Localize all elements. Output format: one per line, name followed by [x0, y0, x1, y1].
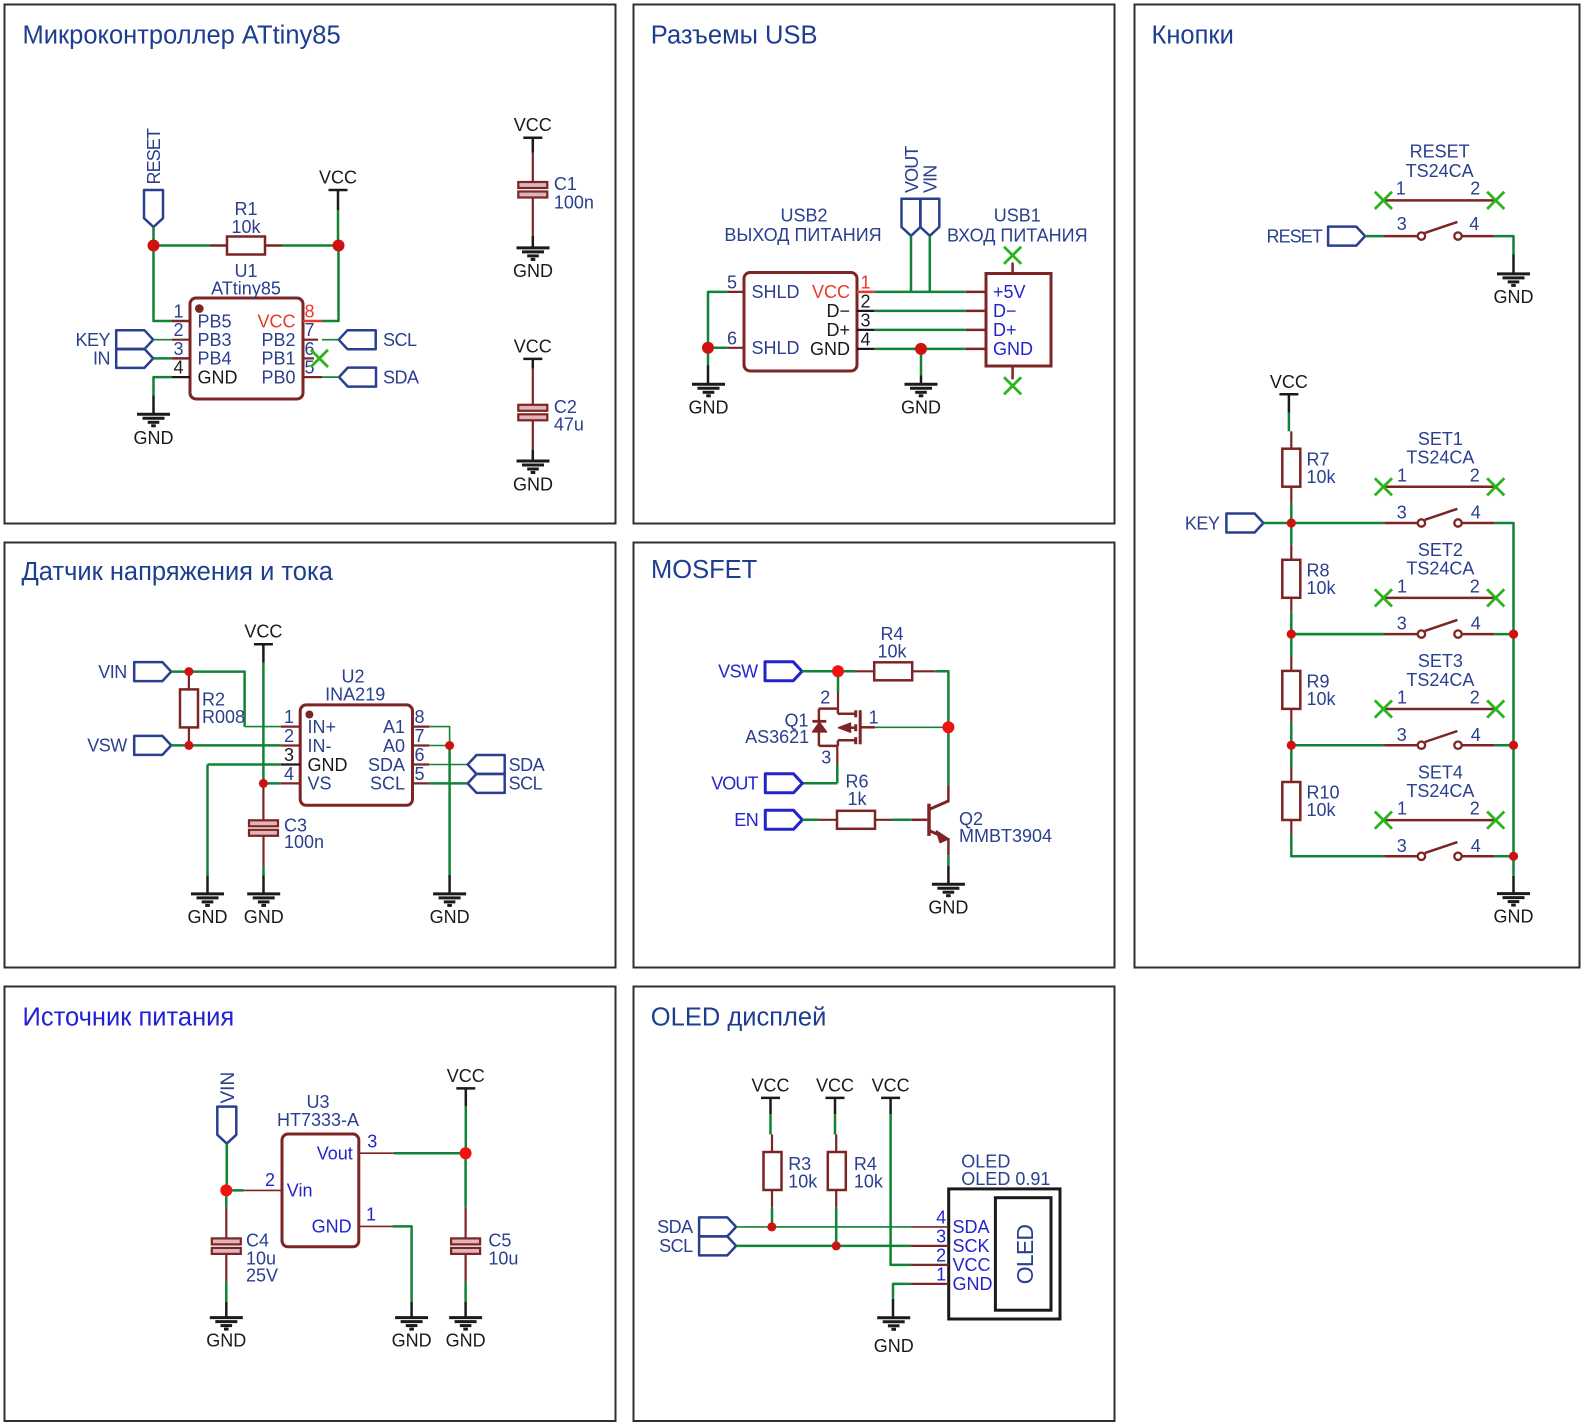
node A0 junction	[445, 741, 454, 750]
USB2 pin 3 D+	[826, 310, 874, 340]
U3 pin 3 Vout	[317, 1132, 394, 1164]
wire VCC to C1	[532, 153, 534, 182]
svg-text:U2: U2	[341, 666, 364, 686]
wire pin5 to SDA	[322, 376, 339, 378]
U1 pin 7 PB2	[261, 320, 318, 350]
svg-text:TS24CA: TS24CA	[1406, 161, 1474, 181]
svg-text:3: 3	[1397, 614, 1407, 634]
switch SET4 contacts	[1384, 855, 1417, 858]
svg-text:10k: 10k	[1307, 800, 1337, 820]
svg-text:PB5: PB5	[198, 311, 232, 331]
wire EN to R6	[802, 819, 818, 822]
svg-text:2: 2	[173, 320, 183, 340]
svg-text:OLED: OLED	[1012, 1225, 1038, 1285]
node VIN junction (power)	[220, 1184, 232, 1196]
svg-text:10k: 10k	[231, 217, 261, 237]
wire right bus	[1495, 523, 1514, 856]
svg-text:GND: GND	[244, 907, 284, 927]
svg-text:3: 3	[936, 1226, 946, 1246]
power VCC (U2)	[244, 622, 282, 663]
svg-text:SCL: SCL	[370, 774, 405, 794]
svg-text:R008: R008	[202, 707, 245, 727]
wire node to R10	[1290, 745, 1293, 767]
power VCC (C2)	[514, 336, 552, 368]
svg-text:3: 3	[1397, 503, 1407, 523]
port flag SDA (oled)	[657, 1217, 736, 1237]
transistor Q2 MMBT3904	[929, 785, 949, 855]
node junction right row4	[1509, 852, 1518, 861]
svg-text:3: 3	[284, 745, 294, 765]
IC U2 INA219 box	[300, 705, 412, 805]
power VCC (oled 3)	[872, 1075, 910, 1114]
wire C5 to ground	[465, 1254, 467, 1318]
wire R1 to node B	[282, 244, 339, 247]
svg-text:D+: D+	[993, 320, 1017, 340]
port flag VSW (mosfet)	[718, 662, 802, 682]
svg-text:GND: GND	[446, 1331, 486, 1351]
capacitor C5	[451, 1238, 480, 1244]
svg-text:U3: U3	[306, 1092, 329, 1112]
wire pin5 to SCL flag	[429, 782, 467, 785]
svg-text:TS24CA: TS24CA	[1406, 670, 1474, 690]
wire VCC sym to node	[465, 1106, 468, 1153]
svg-text:GND: GND	[206, 1331, 246, 1351]
svg-text:VS: VS	[308, 774, 332, 794]
no-connect X RESET pin1	[1375, 192, 1392, 209]
IC U3 HT7333-A box	[282, 1134, 359, 1247]
svg-text:2: 2	[1470, 465, 1480, 485]
wire SDA net	[736, 1226, 911, 1228]
switch SET3 contacts	[1384, 744, 1417, 747]
svg-text:D+: D+	[826, 320, 850, 340]
node gate junction	[942, 721, 954, 733]
wire GND net	[875, 348, 966, 351]
svg-text:GND: GND	[430, 907, 470, 927]
svg-text:3: 3	[1397, 836, 1407, 856]
svg-text:OLED дисплей: OLED дисплей	[651, 1004, 827, 1032]
svg-text:+5V: +5V	[993, 282, 1026, 302]
power VCC (power out)	[447, 1066, 485, 1107]
svg-text:7: 7	[415, 726, 425, 746]
wire SHLD to ground	[707, 348, 710, 384]
svg-text:3: 3	[367, 1132, 377, 1152]
svg-text:5: 5	[727, 272, 737, 292]
svg-text:SCL: SCL	[509, 774, 543, 794]
USB1 top stub	[1011, 263, 1014, 274]
wire node to R9	[1290, 634, 1293, 656]
svg-text:2: 2	[861, 291, 871, 311]
svg-text:1: 1	[1397, 576, 1407, 596]
svg-text:SDA: SDA	[657, 1217, 693, 1237]
resistor R4 (oled)	[828, 1135, 846, 1208]
wire R10 to SET4 pin3	[1291, 834, 1384, 856]
no-connect X SET1 pin2	[1487, 478, 1504, 495]
svg-text:GND: GND	[198, 367, 238, 387]
wire node to Q1 pin2	[837, 671, 840, 708]
U1 pin 8 VCC	[257, 302, 322, 332]
node B junction	[333, 240, 345, 252]
svg-text:Разъемы USB: Разъемы USB	[651, 22, 818, 50]
section box Датчик напряжения и тока	[5, 543, 616, 968]
svg-text:C1: C1	[554, 174, 577, 194]
wire VS node to pin4	[263, 782, 281, 785]
U3 pin 2 Vin	[265, 1170, 313, 1201]
U2 pin 8 A1	[383, 707, 429, 737]
section box Кнопки	[1135, 5, 1580, 968]
connector USB2 box	[744, 273, 857, 372]
svg-text:EN: EN	[734, 810, 758, 830]
USB2 pin 1 VCC	[812, 272, 875, 302]
U2 pin 2 IN-	[281, 726, 332, 756]
svg-text:10k: 10k	[854, 1172, 884, 1192]
resistor R3 (oled)	[764, 1135, 782, 1208]
capacitor C1	[518, 182, 547, 188]
svg-text:5: 5	[305, 358, 315, 378]
wire pin7 to SCL	[322, 339, 339, 341]
ground (U3 GND)	[392, 1318, 432, 1351]
svg-text:SCL: SCL	[383, 330, 417, 350]
svg-text:RESET: RESET	[144, 128, 164, 184]
wire node to C5	[464, 1153, 467, 1238]
wire A0 node to ground	[448, 746, 451, 894]
port flag VIN (power)	[217, 1072, 239, 1144]
svg-text:100n: 100n	[284, 832, 324, 852]
no-connect X bottom (USB1)	[1004, 377, 1021, 394]
wire VSW to IN-	[171, 744, 281, 747]
svg-text:5: 5	[415, 764, 425, 784]
wire pin4 to ground	[154, 377, 173, 414]
section box MOSFET	[634, 543, 1115, 968]
svg-text:SHLD: SHLD	[752, 282, 800, 302]
U1 pin 1 PB5	[172, 302, 232, 332]
wire VCC to R3	[769, 1114, 772, 1134]
svg-text:KEY: KEY	[1185, 513, 1220, 533]
wire node to SET3 pin3 seg	[1291, 744, 1384, 747]
svg-text:1: 1	[284, 707, 294, 727]
wire R3 to SDA net	[771, 1208, 774, 1227]
wire R7 to KEY node	[1290, 503, 1293, 523]
port flag IN	[93, 349, 153, 369]
svg-text:VSW: VSW	[718, 662, 758, 682]
port flag KEY	[75, 330, 153, 350]
wire node A to pin1	[154, 246, 173, 322]
wire bus to ground (keys)	[1512, 856, 1515, 893]
wire R4 to gate node	[935, 671, 948, 727]
svg-text:SET3: SET3	[1418, 651, 1463, 671]
capacitor C2	[518, 405, 547, 411]
ground (USB2 shield)	[689, 384, 729, 417]
svg-text:ВЫХОД ПИТАНИЯ: ВЫХОД ПИТАНИЯ	[724, 225, 881, 245]
svg-text:VSW: VSW	[87, 736, 127, 756]
svg-text:8: 8	[305, 302, 315, 322]
ground (keys)	[1494, 894, 1534, 927]
wire node to SET2 pin3 seg	[1291, 633, 1384, 636]
svg-text:VIN: VIN	[921, 166, 941, 193]
switch SET4 pins 1-2	[1386, 819, 1495, 822]
wire SHLD5 to SHLD6	[708, 292, 727, 348]
svg-text:3: 3	[861, 310, 871, 330]
OLED pin 1 GND	[911, 1264, 993, 1294]
svg-text:VCC: VCC	[816, 1075, 854, 1095]
no-connect X SET2 pin2	[1487, 589, 1504, 606]
node SHLD junction	[702, 342, 714, 354]
node VSW junction	[832, 665, 844, 677]
svg-text:PB4: PB4	[198, 349, 232, 369]
ground (RESET sw)	[1494, 274, 1534, 307]
wire VCC bus	[875, 291, 966, 294]
wire VCC to R4 (oled)	[834, 1114, 837, 1134]
wire RESET flag to switch	[1365, 235, 1384, 238]
connector USB1 box	[986, 274, 1051, 367]
U3 pin 1 GND	[312, 1205, 393, 1237]
svg-text:MOSFET: MOSFET	[651, 556, 757, 584]
svg-text:6: 6	[415, 745, 425, 765]
no-connect X SET2 pin1	[1375, 589, 1392, 606]
section box OLED дисплей	[634, 987, 1115, 1422]
wire Q1 pin3 to VOUT	[802, 746, 837, 783]
svg-text:USB2: USB2	[780, 206, 827, 226]
svg-text:2: 2	[820, 687, 830, 707]
port flag RESET (sw)	[1266, 226, 1365, 246]
resistor R9	[1282, 656, 1300, 723]
power VCC (oled 2)	[816, 1075, 854, 1114]
svg-text:GND: GND	[513, 261, 553, 281]
display OLED box	[949, 1189, 1060, 1319]
svg-text:6: 6	[727, 328, 737, 348]
svg-text:3: 3	[1397, 214, 1407, 234]
wire C3 to ground	[262, 836, 264, 894]
svg-text:VCC: VCC	[244, 622, 282, 642]
svg-text:1: 1	[861, 272, 871, 292]
switch SET2 contacts	[1384, 633, 1417, 636]
node VS junction	[259, 779, 268, 788]
svg-text:GND: GND	[874, 1336, 914, 1356]
resistor R7	[1282, 431, 1300, 503]
svg-text:VCC: VCC	[319, 168, 357, 188]
wire IN to pin3	[153, 357, 172, 360]
svg-text:4: 4	[1471, 836, 1481, 856]
port flag RESET	[144, 128, 164, 227]
wire VCC to node B	[337, 210, 340, 246]
port flag KEY (keys)	[1185, 513, 1264, 533]
USB1 bottom stub	[1011, 366, 1014, 379]
power VCC (C1)	[514, 115, 552, 153]
node KEY junction	[1287, 518, 1296, 527]
switch SET3 pins 1-2	[1386, 708, 1495, 711]
wire VS node to C3	[262, 783, 264, 820]
svg-text:Vin: Vin	[287, 1181, 313, 1201]
svg-text:SET4: SET4	[1418, 762, 1463, 782]
port flag VOUT (mosfet)	[711, 774, 802, 794]
svg-text:SET2: SET2	[1418, 540, 1463, 560]
wire U3 GND pin to ground	[392, 1226, 411, 1317]
wire SET2 pin4 stub	[1495, 633, 1514, 636]
U1 orientation dot	[195, 304, 204, 313]
wire node to U3 Vin	[227, 1189, 282, 1192]
USB2 pin 6 SHLD	[727, 328, 800, 358]
U2 pin 7 A0	[383, 726, 429, 756]
U2 pin 3 GND	[281, 745, 348, 775]
ground (Q2)	[928, 884, 968, 917]
svg-text:Микроконтроллер ATtiny85: Микроконтроллер ATtiny85	[23, 22, 341, 50]
ground (U1)	[134, 414, 174, 448]
svg-text:4: 4	[1471, 614, 1481, 634]
svg-text:1: 1	[1397, 688, 1407, 708]
svg-text:VIN: VIN	[218, 1072, 239, 1104]
IC U1 ATtiny85 box	[190, 298, 303, 399]
svg-text:VCC: VCC	[1270, 372, 1308, 392]
svg-text:GND: GND	[513, 474, 553, 494]
power VCC (U1)	[319, 168, 357, 211]
svg-text:A1: A1	[383, 717, 405, 737]
resistor R2	[180, 672, 198, 746]
svg-text:GND: GND	[312, 1217, 352, 1237]
svg-text:SDA: SDA	[509, 755, 545, 775]
no-connect X SET3 pin2	[1487, 700, 1504, 717]
wire Q1 gate to node	[875, 726, 949, 728]
svg-text:KEY: KEY	[75, 330, 110, 350]
svg-text:3: 3	[1397, 725, 1407, 745]
wire pin3 GND	[208, 765, 281, 894]
wire VOUT drop	[910, 236, 913, 292]
svg-text:TS24CA: TS24CA	[1406, 781, 1474, 801]
section box Микроконтроллер ATtiny85	[5, 5, 616, 524]
svg-text:3: 3	[821, 747, 831, 767]
wire KEY node to SET1 pin3	[1291, 522, 1384, 525]
wire GND to ground	[920, 349, 923, 384]
svg-text:VCC: VCC	[872, 1075, 910, 1095]
svg-text:GND: GND	[953, 1274, 993, 1294]
svg-text:VCC: VCC	[514, 336, 552, 356]
svg-text:PB1: PB1	[261, 349, 295, 369]
svg-text:3: 3	[173, 339, 183, 359]
svg-text:PB0: PB0	[261, 367, 295, 387]
node A junction	[148, 240, 160, 252]
svg-text:10k: 10k	[788, 1172, 818, 1192]
wire VIN to node	[171, 670, 189, 673]
svg-text:4: 4	[936, 1207, 946, 1227]
svg-text:Датчик напряжения и тока: Датчик напряжения и тока	[22, 558, 334, 586]
no-connect X SET1 pin1	[1375, 478, 1392, 495]
svg-text:100n: 100n	[554, 192, 594, 212]
node VSW junction	[184, 741, 193, 750]
svg-text:4: 4	[173, 358, 183, 378]
ground (oled)	[874, 1318, 914, 1356]
svg-text:1: 1	[1397, 799, 1407, 819]
wire RESET sw to ground	[1495, 236, 1514, 273]
svg-text:Источник питания: Источник питания	[23, 1004, 235, 1032]
switch RESET contacts	[1384, 235, 1417, 238]
svg-text:2: 2	[1470, 179, 1480, 199]
svg-text:VCC: VCC	[447, 1066, 485, 1086]
capacitor C3	[249, 820, 278, 826]
node junction left row3	[1287, 741, 1296, 750]
svg-text:A0: A0	[383, 736, 405, 756]
svg-text:TS24CA: TS24CA	[1406, 448, 1474, 468]
svg-text:PB2: PB2	[261, 330, 295, 350]
svg-text:MMBT3904: MMBT3904	[959, 826, 1052, 846]
wire D+ net	[875, 329, 966, 332]
wire VCC3 to OLED VCC pin	[891, 1114, 911, 1265]
node VCC junction (power)	[460, 1147, 472, 1159]
svg-text:TS24CA: TS24CA	[1406, 559, 1474, 579]
svg-text:IN: IN	[93, 349, 110, 369]
no-connect X SET3 pin1	[1375, 700, 1392, 717]
wire C2 to ground	[532, 420, 534, 461]
svg-text:4: 4	[1471, 503, 1481, 523]
resistor R10	[1282, 767, 1300, 834]
node VIN junction	[184, 667, 193, 676]
switch SET1 contacts	[1384, 522, 1417, 525]
svg-text:OLED 0.91: OLED 0.91	[961, 1169, 1050, 1189]
svg-text:VOUT: VOUT	[902, 146, 922, 193]
ground (A0)	[430, 894, 470, 927]
svg-text:VOUT: VOUT	[711, 774, 758, 794]
no-connect X RESET pin2	[1487, 192, 1504, 209]
wire node to C4	[225, 1190, 228, 1238]
U2 pin 5 SCL	[370, 764, 429, 794]
port flag VIN (USB)	[920, 166, 940, 236]
wire R8 to node	[1290, 612, 1293, 634]
svg-text:1k: 1k	[847, 789, 867, 809]
svg-text:1: 1	[1396, 179, 1406, 199]
svg-text:2: 2	[1470, 799, 1480, 819]
port flag SCL (oled)	[659, 1236, 736, 1256]
port flag SCL (sensor)	[468, 774, 543, 794]
wire VCC to C2	[532, 369, 534, 405]
wire node to SET2 pin3	[1291, 633, 1384, 636]
no-connect X SET4 pin2	[1487, 812, 1504, 829]
svg-text:GND: GND	[689, 397, 729, 417]
svg-text:IN-: IN-	[308, 736, 332, 756]
resistor R4 (mosfet)	[856, 662, 935, 680]
wire C4 to ground	[225, 1254, 227, 1318]
svg-text:25V: 25V	[246, 1266, 278, 1286]
port flag SCL	[339, 330, 417, 350]
svg-text:SCL: SCL	[659, 1236, 693, 1256]
svg-text:Vout: Vout	[317, 1144, 353, 1164]
svg-text:2: 2	[1470, 688, 1480, 708]
power VCC (oled 1)	[751, 1075, 789, 1114]
wire node B to pin8	[322, 246, 339, 322]
USB1 pin D-	[966, 301, 1017, 321]
no-connect X SET4 pin1	[1375, 812, 1392, 829]
wire R4 to SCK net	[835, 1208, 838, 1246]
svg-text:GND: GND	[308, 755, 348, 775]
svg-text:RESET: RESET	[1410, 142, 1470, 162]
svg-text:GND: GND	[1494, 287, 1534, 307]
svg-text:1: 1	[173, 302, 183, 322]
svg-text:8: 8	[415, 707, 425, 727]
svg-text:2: 2	[936, 1245, 946, 1265]
svg-text:GND: GND	[188, 907, 228, 927]
svg-text:D−: D−	[826, 301, 850, 321]
svg-text:GND: GND	[993, 339, 1033, 359]
svg-text:1: 1	[936, 1264, 946, 1284]
U1 pin 5 PB0	[261, 358, 322, 388]
svg-text:GND: GND	[1494, 907, 1534, 927]
svg-text:7: 7	[305, 320, 315, 340]
svg-text:VCC: VCC	[812, 282, 850, 302]
wire node to SET3 pin3	[1291, 744, 1384, 747]
wire node down to Q2 collector	[947, 727, 950, 785]
switch SET2 pins 1-2	[1386, 597, 1495, 600]
wire VCC down to VS node	[262, 663, 265, 784]
OLED pin 2 VCC	[911, 1245, 991, 1275]
ground (USB GND)	[901, 384, 941, 417]
wire OLED GND to ground	[893, 1284, 911, 1318]
svg-text:VCC: VCC	[751, 1075, 789, 1095]
